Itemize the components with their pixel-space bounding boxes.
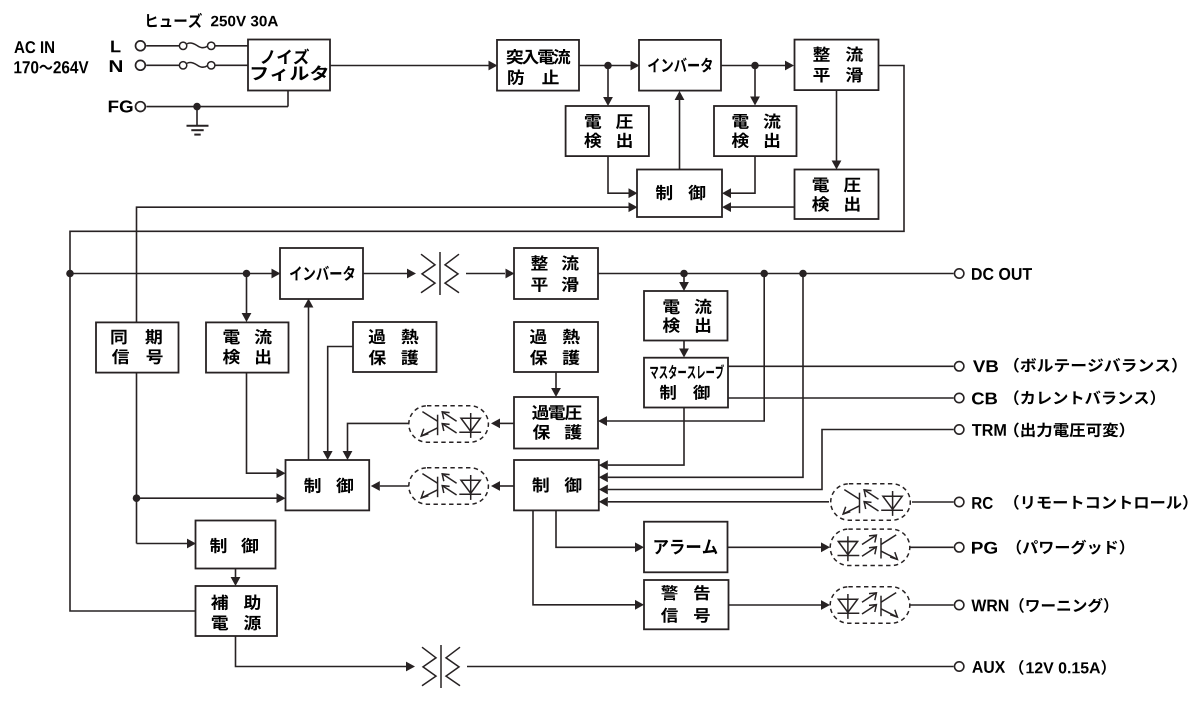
wire alarm to PC4 [728,542,831,552]
wire controlC up to inverter2 [304,299,314,461]
wire ovp feed from dc bus [598,274,764,426]
terminal DC OUT [955,269,964,278]
wire master-slave to CB terminal [728,397,954,399]
block master-slave control [644,358,728,408]
label 170-264V [14,61,88,73]
block auxiliary power supply [196,586,278,636]
terminal FG [136,102,146,112]
terminal CB [955,393,964,402]
wire junction down to current detect 1 [750,66,760,106]
block rectifier-smoother 2 [514,248,598,299]
block control (secondary master) [286,460,370,510]
block thermal protection (primary) [353,322,437,372]
wire PC3 to control2 [599,497,829,507]
wire RC terminal to PC3 [912,501,954,503]
label (12V 0.15A) [1019,660,1106,675]
fuse F2 (N line) with wires [146,62,248,69]
block control (aux) [196,521,276,569]
label fuse rating (hyuzu 250V 30A) [147,13,278,28]
label (output voltage adj) [1014,422,1124,437]
block control (output) [514,460,599,510]
label RC [972,497,993,509]
terminal WRN [955,600,964,609]
block alarm [644,522,728,573]
wire power loop (rect1 to aux supply) [70,66,904,612]
wire noise filter to inrush block [330,61,498,71]
block control (primary) [637,170,722,218]
wire current detect1 to control1 [722,156,755,198]
wire PC4 to PG terminal [910,546,954,548]
block warning signal [644,580,729,629]
wire branch down to current detect2 [242,274,252,323]
wire voltage detect2 to control1 [722,202,795,212]
junction dc bus branch to current detect2 [243,270,251,278]
junction dc bus to current detect3 [680,270,688,278]
wire dc bus branch to current detect3 [679,274,689,292]
label N [110,60,122,72]
block inrush current prevention [497,40,579,91]
label (current balance) [1014,390,1155,405]
terminal AUX [955,662,964,671]
transformer T2 [422,645,460,688]
label VB [973,360,998,372]
wire current detect2 to controlC [247,373,286,479]
wire rectifier1 down to voltage detect2 [832,91,842,170]
wire control2 to warning signal [533,510,644,609]
wire control3 to aux supply [231,569,241,587]
photocoupler PC4 (power good) [830,529,910,565]
block sync signal [96,322,179,372]
photocoupler PC1 (ovp) [409,406,489,442]
label PG [972,542,997,554]
block voltage detect 1 [566,106,649,156]
wire thermal2 down to ovp [551,372,561,397]
wire FG to junction [146,106,288,108]
block current detect 1 [714,106,797,156]
wire aux supply to transformer T2 [236,636,416,671]
junction sync branch to controlC [133,494,141,502]
photocoupler PC5 (warning) [830,587,910,623]
wire ovp to PC1 [491,419,514,429]
wire transformer T2 to AUX terminal [467,666,954,668]
block current detect 3 [644,291,728,341]
wire dc bus to inverter2 [70,269,281,279]
terminal TRM [955,425,964,434]
terminal N [136,60,146,70]
wire inverter1 to rectifier1 [721,61,794,71]
block current detect 2 [206,322,289,372]
label L [111,41,120,53]
wire PC1 to controlC [343,423,409,460]
junction dc bus to control2 [799,270,807,278]
block inverter (primary) [639,40,721,91]
junction after inrush [604,62,612,70]
label (voltage balance) [1014,358,1176,373]
wire PC5 to WRN terminal [910,604,954,606]
transformer T1 [421,252,459,295]
wire sync line (to control1) [137,202,638,322]
wire sync to control3 [137,539,197,549]
terminal VB [955,362,964,371]
junction after inverter1 [751,62,759,70]
wire thermal prot to controlC [323,347,353,461]
label AC IN [14,41,54,53]
terminal RC [955,497,964,506]
wire control2 to PC2 [491,481,514,491]
wire noise filter bottom to FG wire [287,91,289,107]
wire junction down to voltage detect 1 [603,66,613,107]
label (remote control) [1014,495,1187,510]
block rectifier-smoother 1 [795,40,879,91]
label WRN [971,600,1008,612]
wire control2 to alarm [556,510,644,552]
label AUX [972,661,1005,673]
terminal PG [955,543,964,552]
label (power good) [1017,540,1125,555]
wire control1 up to inverter1 [675,91,685,170]
block noise filter [248,40,330,91]
wire current detect3 to master-slave [679,340,689,358]
junction dc bus to ovp [760,270,768,278]
label (warning) [1019,598,1108,613]
block overvoltage protection [514,397,598,449]
wire master-slave to control2 [599,408,684,471]
wire transformer T1 to rectifier2 [466,269,515,279]
label DC OUT [972,268,1032,280]
terminal L [136,41,146,51]
wire inverter2 to transformer T1 [363,269,416,279]
wire warning to PC5 [729,600,831,610]
label CB [972,392,997,404]
wire inrush to inverter1 [579,61,640,71]
wire master-slave to VB terminal [728,365,954,367]
wire PC2 to controlC [371,481,409,491]
wire TRM to control2 [599,430,954,495]
junction power loop / dc bus [66,270,74,278]
block thermal protection (secondary) [514,322,598,372]
fuse F1 (L line) with wires [146,42,248,49]
wire voltage detect1 to control1 [608,156,638,198]
wire branch to controlC lower [137,493,286,503]
wire control2 feed from dc bus [599,274,803,483]
ground symbol [187,107,209,135]
wire dc output bus [598,273,954,275]
block inverter (secondary) [280,248,363,299]
block voltage detect 2 (hv) [795,170,879,220]
junction on FG wire [193,103,201,111]
photocoupler PC2 (feedback) [409,468,489,504]
photocoupler PC3 (remote control) [831,484,911,520]
wire sync box down / branches [136,373,138,544]
label FG [109,100,133,112]
label TRM [972,424,1006,436]
